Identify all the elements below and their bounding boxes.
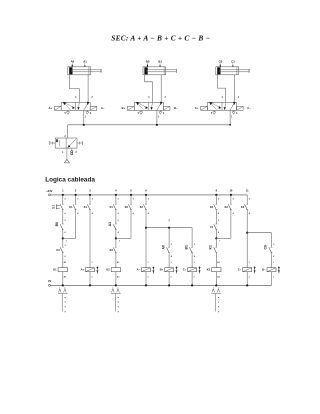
relay coil K2 xyxy=(111,268,120,272)
contact mirror K1 xyxy=(59,289,62,293)
position sensor C0 xyxy=(220,65,221,67)
supply valve right box flow arrow xyxy=(68,139,75,147)
exhaust port 5 C xyxy=(213,110,215,111)
wire xyxy=(145,210,147,228)
svg-text:B0: B0 xyxy=(146,59,150,63)
wire xyxy=(168,253,170,268)
svg-text:B−: B− xyxy=(174,106,178,110)
junction rung9/10 merge xyxy=(215,237,217,239)
svg-text:B−: B− xyxy=(262,268,266,272)
svg-text:S1: S1 xyxy=(52,205,56,209)
junction 0V rung1 xyxy=(62,284,64,286)
wire xyxy=(271,253,273,268)
wire rung2 top xyxy=(75,195,77,204)
exhaust port 3 B xyxy=(159,110,161,111)
contact K3 xyxy=(113,247,116,252)
wire cylinder A piston port to valve port 4 xyxy=(69,75,79,103)
wire xyxy=(230,210,232,239)
piston rod C xyxy=(220,70,249,72)
contact mirror K3 xyxy=(212,289,215,293)
air supply source xyxy=(66,148,68,159)
solenoid target arrow C− xyxy=(254,266,256,273)
valve solenoid coil B- xyxy=(267,268,276,272)
svg-text:A1: A1 xyxy=(83,59,87,63)
contact K3 xyxy=(245,204,248,209)
svg-text:A0: A0 xyxy=(161,245,165,249)
valve B right box flow arrows xyxy=(157,103,161,110)
valve 5/2 B body xyxy=(134,102,163,110)
valve 5/2 A body xyxy=(61,102,90,110)
valve solenoid coil A+ xyxy=(86,268,95,272)
contact K3 xyxy=(60,247,63,252)
push button S1 marks xyxy=(55,204,57,209)
wire valve A port 1 to manifold xyxy=(83,110,85,125)
wire xyxy=(75,210,77,239)
position sensor C1 xyxy=(231,65,234,67)
wire xyxy=(115,253,117,268)
wire xyxy=(215,230,217,239)
contact S1 start xyxy=(60,204,63,209)
svg-text:B1: B1 xyxy=(184,245,188,249)
valve C right box flow arrows xyxy=(230,103,234,110)
junction valve C supply xyxy=(229,124,231,126)
junction rail rung 5 xyxy=(130,194,132,196)
wire xyxy=(215,238,217,247)
wire xyxy=(62,230,64,239)
wire cylinder A rod port to valve port 2 xyxy=(87,75,89,103)
+24V rail xyxy=(50,194,247,196)
svg-text:A+: A+ xyxy=(81,268,85,272)
wire rung1 top xyxy=(62,195,64,204)
wire xyxy=(215,210,217,224)
wire rung4 top xyxy=(115,195,117,204)
svg-text:+24V: +24V xyxy=(46,189,52,193)
branch wire to rungs 7/8 xyxy=(146,227,192,229)
valve solenoid coil C- xyxy=(243,268,252,272)
merge wire rung5 to rung4 xyxy=(116,237,131,239)
wire xyxy=(115,210,117,224)
valve solenoid coil A- xyxy=(142,268,151,272)
manifold air supply line xyxy=(68,124,230,126)
solenoid B+ (left pilot) xyxy=(128,106,135,110)
cylinder B xyxy=(143,67,166,75)
position sensor B0 xyxy=(147,65,148,67)
wire xyxy=(115,230,117,239)
svg-text:0V: 0V xyxy=(48,279,51,283)
position sensor B1 xyxy=(159,65,162,67)
valve C left box flow arrows xyxy=(210,103,216,110)
piston rod B xyxy=(147,70,176,72)
svg-text:C1: C1 xyxy=(231,59,235,63)
junction rung11 branch xyxy=(246,232,248,234)
solenoid target arrow C+ xyxy=(199,266,201,273)
svg-text:B+: B+ xyxy=(122,106,126,110)
wire rung12 xyxy=(271,233,273,248)
junction rung7 xyxy=(168,227,170,229)
merge wire rung10 to rung9 xyxy=(216,237,231,239)
solenoid target arrow A− xyxy=(152,266,154,273)
wire xyxy=(62,210,64,224)
detent symbol xyxy=(71,151,73,153)
wire valve C port 1 to manifold xyxy=(229,110,231,125)
wire to 0V xyxy=(168,272,170,286)
junction rung4/5 merge xyxy=(115,237,117,239)
wire rung6 top xyxy=(145,195,147,204)
contact C0 limit xyxy=(269,247,272,252)
wire xyxy=(145,228,147,268)
wire to 0V xyxy=(115,272,117,286)
supply valve 3/2 body xyxy=(55,138,77,148)
svg-text:K1: K1 xyxy=(53,268,57,272)
solenoid target arrow B+ xyxy=(176,266,178,273)
svg-text:A−: A− xyxy=(101,106,105,110)
contact C1 limit xyxy=(214,224,217,229)
svg-text:C+: C+ xyxy=(183,268,187,272)
contact K1 xyxy=(113,204,116,209)
contact B0 limit xyxy=(60,224,63,229)
junction rail rung 1 xyxy=(62,194,64,196)
junction 0V rung7 xyxy=(168,284,170,286)
contact K1 xyxy=(214,247,217,252)
svg-text:B0: B0 xyxy=(55,222,59,226)
exhaust port 5 A xyxy=(67,110,69,111)
contact B1 limit xyxy=(190,247,193,252)
junction valve A supply xyxy=(83,124,85,126)
cylinder A xyxy=(68,67,91,75)
wire xyxy=(246,210,248,233)
wire rung9 top xyxy=(215,195,217,204)
junction rung6 branch xyxy=(145,227,147,229)
wire xyxy=(89,210,91,268)
svg-text:B+: B+ xyxy=(160,268,164,272)
valve 5/2 C body xyxy=(208,102,237,110)
svg-text:K3: K3 xyxy=(207,268,211,272)
junction rail rung 6 xyxy=(145,194,147,196)
svg-text:Logica cableada: Logica cableada xyxy=(45,176,95,183)
wire to 0V xyxy=(89,272,91,286)
branch wire to rung12 xyxy=(247,232,271,234)
contact K2 xyxy=(143,204,146,209)
merge wire rung2 to rung1 xyxy=(63,237,76,239)
position sensor A0 xyxy=(72,65,73,67)
contact K1 xyxy=(87,204,90,209)
supply valve left box (blocked) xyxy=(56,139,58,142)
junction rail rung 3 xyxy=(89,194,91,196)
wire rung10 top xyxy=(230,195,232,204)
wire manifold to supply valve port 2 xyxy=(67,125,69,138)
wire xyxy=(246,233,248,268)
wire cylinder C piston port to valve port 4 xyxy=(217,75,225,103)
wire xyxy=(62,238,64,247)
exhaust port 5 B xyxy=(140,110,142,111)
wire cylinder B piston port to valve port 4 xyxy=(145,75,153,103)
exhaust port 3 A xyxy=(86,110,88,111)
junction rail rung 2 xyxy=(75,194,77,196)
position sensor A1 xyxy=(83,65,86,67)
junction 0V rung8 xyxy=(191,284,193,286)
wire xyxy=(115,238,117,247)
junction 0V rung9 xyxy=(215,284,217,286)
manual actuator right xyxy=(77,142,82,144)
contact K2 seal xyxy=(128,204,131,209)
wire valve B port 1 to manifold xyxy=(156,110,158,125)
wire cylinder B rod port to valve port 2 xyxy=(160,75,162,103)
exhaust port 3 C xyxy=(233,110,235,111)
wire xyxy=(215,253,217,268)
contact A0 limit xyxy=(167,247,170,252)
relay coil K3 xyxy=(212,268,221,272)
valve A left box flow arrows xyxy=(64,103,70,110)
svg-text:A−: A− xyxy=(137,268,141,272)
junction 0V rung4 xyxy=(115,284,117,286)
svg-text:SEC: A + A − B + C + C − B −: SEC: A + A − B + C + C − B − xyxy=(111,33,210,42)
solenoid C- (right pilot) xyxy=(237,106,244,110)
junction 0V rung6 xyxy=(145,284,147,286)
junction rail rung 10 xyxy=(230,194,232,196)
cylinder C xyxy=(216,67,239,75)
valve solenoid coil B+ xyxy=(165,268,174,272)
solenoid A- (right pilot) xyxy=(90,106,97,110)
wire xyxy=(130,210,132,239)
solenoid target arrow A+ xyxy=(96,266,98,273)
wire xyxy=(191,253,193,268)
wire rung12 to 0V rail end xyxy=(271,272,273,286)
wire rung11 top xyxy=(246,195,248,204)
wire to 0V xyxy=(62,272,64,286)
valve B left box flow arrows xyxy=(137,103,143,110)
wire rung7 xyxy=(168,228,170,248)
contact K3 seal xyxy=(228,204,231,209)
wire cylinder C rod port to valve port 2 xyxy=(233,75,235,103)
svg-text:C−: C− xyxy=(247,106,251,110)
solenoid target arrow B− xyxy=(278,266,280,273)
junction rail rung 9 xyxy=(215,194,217,196)
contact K2 xyxy=(214,204,217,209)
svg-text:B1: B1 xyxy=(158,59,162,63)
junction valve B supply xyxy=(156,124,158,126)
svg-text:C0: C0 xyxy=(264,245,268,249)
0V rail xyxy=(50,284,271,286)
wire to 0V xyxy=(246,272,248,286)
contact K1 seal xyxy=(73,204,76,209)
junction rail rung 4 xyxy=(115,194,117,196)
svg-text:A0: A0 xyxy=(71,59,75,63)
relay coil K1 xyxy=(58,268,67,272)
valve A right box flow arrows xyxy=(84,103,88,110)
solenoid C+ (left pilot) xyxy=(201,106,208,110)
svg-text:C+: C+ xyxy=(195,106,199,110)
wire rung3 top xyxy=(89,195,91,204)
wire to 0V xyxy=(191,272,193,286)
svg-text:K1: K1 xyxy=(209,245,213,249)
contact mirror K2 xyxy=(112,289,115,293)
junction 0V rung11 xyxy=(246,284,248,286)
junction rung1/2 merge xyxy=(62,237,64,239)
contact A1 limit xyxy=(113,224,116,229)
junction 0V rung3 xyxy=(89,284,91,286)
wire to 0V xyxy=(215,272,217,286)
svg-text:C0: C0 xyxy=(219,59,223,63)
solenoid A+ (left pilot) xyxy=(54,106,61,110)
piston rod A xyxy=(72,70,101,72)
svg-text:K2: K2 xyxy=(106,268,110,272)
valve solenoid coil C+ xyxy=(188,268,197,272)
wire xyxy=(62,253,64,268)
wire rung8 xyxy=(191,228,193,248)
wire rung5 top xyxy=(130,195,132,204)
svg-text:A1: A1 xyxy=(108,222,112,226)
svg-text:C−: C− xyxy=(238,268,242,272)
manual actuator left xyxy=(50,142,55,144)
wire to 0V xyxy=(145,272,147,286)
solenoid B- (right pilot) xyxy=(163,106,170,110)
svg-text:A+: A+ xyxy=(49,106,53,110)
